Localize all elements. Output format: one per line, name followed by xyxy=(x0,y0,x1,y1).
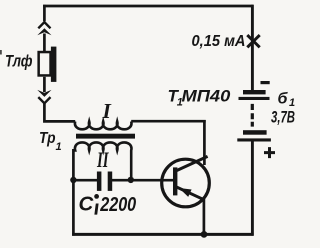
transistor T1 circle xyxy=(162,159,210,207)
svg-text:С: С xyxy=(79,193,95,216)
svg-text:б: б xyxy=(278,90,289,107)
node junction dot winding II right / base xyxy=(128,177,134,183)
transistor emitter arrow (PNP) xyxy=(179,188,192,197)
battery minus sign xyxy=(261,81,270,84)
svg-text:0,15 мА: 0,15 мА xyxy=(192,33,246,50)
transistor collector line xyxy=(177,156,208,170)
svg-text:1: 1 xyxy=(289,97,295,109)
transformer primary winding I xyxy=(75,121,132,129)
wire right vertical lower xyxy=(251,141,254,235)
headphone Тлф thick bar xyxy=(51,47,57,82)
wire winding I right end to collector vertical xyxy=(131,120,206,123)
transformer secondary winding II xyxy=(73,142,131,180)
meter break X mark xyxy=(247,35,259,47)
capacitor selection dot xyxy=(94,194,99,199)
jack arrow chevron down (open) xyxy=(38,97,50,103)
wire left vertical winding II to bottom rail xyxy=(72,149,75,236)
transistor base bar xyxy=(173,167,177,195)
wire arrow to phone box xyxy=(43,34,46,53)
capacitor C1 left plate xyxy=(97,172,102,191)
jack arrow chevron up (open) xyxy=(38,22,50,28)
battery cell2 short thick bar xyxy=(243,130,267,135)
svg-text:МП40: МП40 xyxy=(182,86,231,105)
wire capacitor to base xyxy=(112,179,174,182)
wire left drop to phones xyxy=(43,5,46,21)
label C1 subscript bar xyxy=(94,204,98,215)
headphone Тлф body rectangle xyxy=(39,52,51,75)
svg-text:2200: 2200 xyxy=(99,193,136,216)
jack arrow chevron up (thick) xyxy=(37,28,51,35)
wire right vertical upper xyxy=(251,5,254,91)
wire left drop + bottom corner to transformer xyxy=(44,103,75,122)
battery plus sign xyxy=(264,147,275,158)
transistor emitter line xyxy=(177,187,205,200)
wire emitter vertical xyxy=(203,199,206,236)
node junction dot left xyxy=(70,177,76,183)
svg-text:II: II xyxy=(96,147,109,172)
battery cell2 long bar xyxy=(237,138,271,141)
scan edge speck xyxy=(0,50,2,55)
svg-text:I: I xyxy=(102,99,112,123)
transformer core bar xyxy=(76,134,135,139)
battery cell1 long bar xyxy=(239,97,270,100)
jack arrow chevron down (thick) xyxy=(37,90,51,97)
battery cell1 short thick bar xyxy=(243,90,266,94)
svg-text:Тлф: Тлф xyxy=(5,52,33,71)
capacitor C1 right plate xyxy=(108,172,113,191)
wire bottom rail xyxy=(72,233,254,236)
wire junction to capacitor xyxy=(73,179,97,182)
wire top rail xyxy=(43,5,253,8)
wire collector vertical xyxy=(203,120,206,165)
svg-text:Тр: Тр xyxy=(39,130,56,147)
svg-text:1: 1 xyxy=(56,141,62,153)
battery dashed link xyxy=(251,104,254,127)
node junction dot emitter/rail xyxy=(201,231,208,238)
svg-text:3,7В: 3,7В xyxy=(271,109,295,127)
wire phone box to down arrows xyxy=(43,77,46,92)
